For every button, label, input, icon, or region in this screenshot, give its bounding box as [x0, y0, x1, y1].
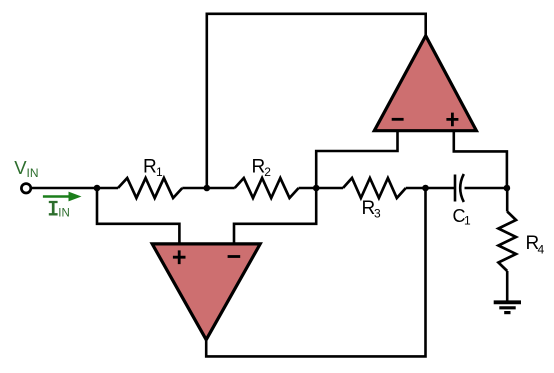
capacitor C1	[455, 174, 464, 202]
label R2	[252, 157, 272, 180]
input terminal circle	[21, 184, 30, 193]
U1 minus sign	[392, 118, 404, 121]
svg-text:V: V	[14, 157, 27, 178]
svg-text:1: 1	[156, 165, 163, 179]
label R3	[362, 198, 382, 221]
resistor R2	[235, 178, 299, 198]
wire: node N2 up to - input of top op-amp	[316, 131, 397, 188]
U2 minus sign	[228, 255, 241, 258]
wire: R1 to R2	[182, 187, 234, 190]
wire: R4 to ground	[506, 271, 509, 301]
svg-text:1: 1	[464, 214, 471, 228]
op-amp U2 (bottom, pointing down)	[152, 244, 260, 340]
label R4	[526, 233, 545, 256]
svg-text:2: 2	[264, 165, 271, 179]
wire: - input of bottom op-amp up to node N2	[234, 188, 316, 244]
svg-text:IN: IN	[58, 208, 70, 220]
label IIN	[49, 202, 70, 220]
svg-text:IN: IN	[27, 166, 39, 180]
label C1	[453, 206, 472, 228]
resistor R3	[343, 178, 406, 198]
node A junction	[94, 185, 101, 192]
node N3 junction	[422, 185, 429, 192]
node N4 junction	[504, 185, 511, 192]
svg-text:4: 4	[538, 243, 545, 257]
ground	[494, 302, 521, 312]
svg-text:R: R	[143, 156, 157, 177]
wire: node N4 down to R4	[506, 188, 509, 212]
U2 plus sign	[173, 250, 186, 264]
node N1 junction	[204, 185, 211, 192]
op-amp U1 (top, pointing up)	[374, 36, 476, 131]
wire: node A down to + input of bottom op-amp	[97, 188, 179, 244]
wire: + input of top op-amp down to node N4	[454, 131, 507, 188]
wire: C1 to R4 node	[465, 187, 508, 190]
label VIN	[14, 157, 38, 180]
wire: R3 to C1	[406, 187, 455, 190]
wire: R2 to R3	[299, 187, 343, 190]
current arrow IIN	[43, 192, 82, 202]
resistor R4 (vertical)	[498, 212, 516, 272]
node N2 junction	[313, 185, 320, 192]
label R1	[143, 156, 163, 179]
U1 plus sign	[446, 113, 458, 127]
svg-text:R: R	[252, 157, 266, 178]
wire: top feedback loop (node N1 up, across, down to top op-amp output)	[207, 14, 426, 188]
resistor R1	[118, 178, 182, 198]
wire: main line from input terminal to R1	[31, 187, 118, 190]
svg-text:3: 3	[374, 207, 381, 221]
wire: node N3 down, across, up to bottom op-amp output	[206, 188, 425, 356]
